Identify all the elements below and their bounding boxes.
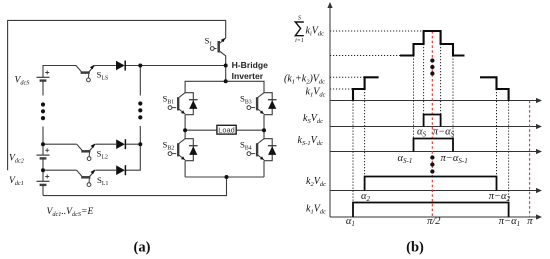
switch S_LS: [76, 65, 95, 82]
wire row S_LS mid: [95, 65, 116, 67]
dotted level lines: [330, 31, 424, 89]
wire load left: [185, 129, 217, 131]
axis main x: [330, 100, 539, 102]
svg-text:(a): (a): [134, 240, 151, 256]
wire H-bridge left leg middle: [184, 115, 186, 139]
wire battery bus segment below VdcS: [42, 81, 44, 96]
svg-text:kS-1Vdc: kS-1Vdc: [298, 135, 323, 147]
pulse k1: [353, 203, 509, 218]
svg-text:kiVdc: kiVdc: [306, 26, 325, 38]
svg-text:Load: Load: [218, 126, 234, 135]
battery Vdc2: [37, 148, 50, 158]
wire H-bridge right leg middle: [263, 115, 265, 139]
svg-text:SB3: SB3: [240, 94, 252, 106]
wire H-bridge right leg bottom: [263, 161, 265, 177]
svg-text:αS-1: αS-1: [398, 153, 413, 165]
staircase waveform middle: [400, 31, 465, 56]
diode D_S: [116, 61, 125, 71]
svg-text:k1Vdc: k1Vdc: [306, 204, 326, 216]
svg-text:αS: αS: [417, 127, 427, 139]
svg-text:π−αS-1: π−αS-1: [441, 153, 468, 165]
svg-text:S: S: [298, 16, 301, 22]
level sum kiVdc: [330, 30, 424, 32]
wire row S_L2 left: [43, 143, 77, 145]
staircase waveform right: [480, 77, 509, 100]
switch S_f: [210, 38, 225, 56]
diode D_2: [116, 139, 125, 149]
IGBT S_B4: [247, 139, 277, 161]
IGBT S_B3: [247, 93, 277, 115]
red dashed pi line: [529, 101, 531, 218]
level sum minus kS: [330, 55, 400, 57]
svg-text:Vdc1: Vdc1: [9, 176, 24, 187]
battery VdcS: [37, 71, 50, 81]
axis y: [329, 5, 331, 217]
load box: [217, 125, 236, 134]
dotted pi-alphaS-1: [452, 56, 454, 139]
svg-text:π−αS: π−αS: [433, 127, 455, 139]
wire battery bus below Vdc1: [42, 185, 44, 196]
diode D_1: [116, 165, 125, 175]
level k1: [330, 88, 353, 90]
wire load right: [236, 129, 264, 131]
dotted pi-alpha1: [508, 101, 510, 203]
svg-text:SB1: SB1: [163, 94, 175, 106]
wire battery bus segment Vdc2 to Vdc1: [42, 158, 44, 181]
wire battery bus segment above Vdc2: [42, 127, 44, 156]
level k1+k2: [330, 76, 365, 78]
svg-text:SLS: SLS: [97, 70, 109, 82]
wire row S_L2 mid: [96, 143, 117, 145]
svg-text:SB4: SB4: [240, 140, 252, 152]
wire top rail: [8, 20, 226, 170]
svg-text:SL2: SL2: [97, 149, 108, 161]
ellipsis dots diode bus: [138, 101, 142, 119]
wire H-bridge top rail: [185, 81, 264, 92]
node junction dots: [41, 64, 266, 180]
pulse kS: [424, 115, 441, 127]
IGBT S_B1: [168, 93, 198, 115]
svg-text:SB2: SB2: [163, 140, 175, 152]
svg-text:Vdc1..VdcS=E: Vdc1..VdcS=E: [47, 207, 94, 218]
svg-text:kSVdc: kSVdc: [303, 113, 323, 125]
svg-text:H-Bridge: H-Bridge: [232, 60, 269, 70]
wire row S_L2 right: [126, 143, 141, 145]
switch S_L1: [77, 170, 96, 187]
svg-text:(b): (b): [406, 240, 424, 256]
svg-text:π: π: [527, 216, 533, 227]
dotted pi-alphaS: [440, 44, 442, 115]
svg-text:π−α2: π−α2: [489, 191, 511, 203]
ellipsis dots below peak: [430, 58, 434, 75]
svg-text:π/2: π/2: [427, 216, 441, 227]
svg-text:VdcS: VdcS: [15, 76, 31, 87]
svg-text:Sf: Sf: [205, 36, 212, 48]
dotted alphaS-1: [413, 56, 415, 139]
wire row S_LS right to H-bridge: [125, 65, 225, 67]
battery Vdc1: [37, 175, 50, 185]
wire diode bus vertical lower: [126, 126, 141, 170]
axis baseline kS: [330, 126, 539, 128]
svg-text:Vdc2: Vdc2: [9, 154, 25, 165]
dotted alphaS: [423, 44, 425, 115]
svg-text:α2: α2: [361, 191, 371, 203]
svg-text:Inverter: Inverter: [232, 71, 264, 81]
svg-text:k1Vdc: k1Vdc: [306, 87, 326, 99]
axis baseline k2: [330, 190, 539, 192]
svg-text:k2Vdc: k2Vdc: [306, 176, 326, 188]
wire H-bridge bottom rail: [185, 176, 264, 178]
wire H-bridge left leg bottom: [184, 161, 186, 177]
dotted vertical angle lines: [353, 44, 509, 203]
wire bottom rail: [43, 177, 227, 196]
svg-text:π−α1: π−α1: [499, 216, 520, 228]
svg-text:(k1+k2)Vdc: (k1+k2)Vdc: [284, 74, 325, 86]
ellipsis dots battery bus: [41, 102, 45, 120]
dotted pi-alpha2: [496, 89, 498, 177]
dotted alpha1: [352, 101, 354, 203]
switch S_L2: [77, 144, 96, 161]
axis baseline kS-1: [330, 151, 539, 153]
svg-text:SL1: SL1: [97, 175, 108, 187]
pulse kS-1: [414, 139, 454, 152]
axis baseline k1: [330, 216, 539, 218]
wire row S_L1 mid: [95, 169, 116, 171]
wire row S_L1 left: [43, 169, 77, 171]
staircase waveform left: [353, 77, 379, 100]
pulse k2: [365, 177, 497, 191]
wire S_f emitter to bus node: [225, 56, 227, 82]
wire diode bus vertical upper: [139, 66, 141, 96]
red dashed pi/2 line: [431, 31, 433, 217]
dotted alpha2: [364, 89, 366, 177]
svg-text:i=1: i=1: [295, 38, 304, 44]
svg-text:α1: α1: [346, 216, 355, 228]
IGBT S_B2: [168, 139, 198, 161]
ellipsis dots between rows: [430, 155, 434, 173]
wire battery bus top: [43, 66, 76, 78]
